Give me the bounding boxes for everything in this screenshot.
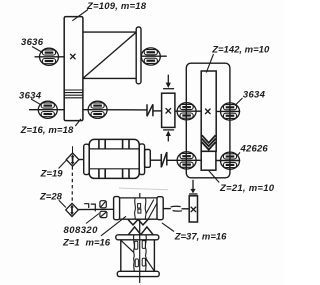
- bearing shaft I right: [141, 48, 160, 65]
- shaft II middle segment: [83, 109, 147, 111]
- bearing 3636: [40, 48, 59, 65]
- shaft IV right of wheel: [163, 208, 171, 210]
- bevel cone: [83, 32, 136, 78]
- gearbox bracket frame: [186, 63, 230, 178]
- x mark on gear Z=142: [206, 109, 211, 114]
- motor shaft right: [150, 159, 161, 161]
- shaft I right segment: [141, 55, 167, 57]
- x mark shaft I on gear Z=109: [71, 54, 76, 59]
- label Z=109, m=18: [72, 1, 146, 21]
- stub above diamond: [72, 146, 74, 153]
- bearing 42626 gearbox bottom-right: [221, 152, 240, 169]
- gap symbol: [171, 206, 182, 211]
- label Z=19: [40, 160, 67, 179]
- coupling diamond Z=19: [66, 153, 79, 166]
- scan crease (faint): [119, 188, 168, 190]
- shaft break motor side: [161, 152, 167, 167]
- gear block Z=109 / Z=16: [64, 17, 83, 121]
- wheel shaft stub above: [139, 193, 141, 198]
- label Z=1 m=16: [62, 216, 126, 248]
- x-gear near worm: [189, 196, 197, 222]
- seal 808320 lower: [100, 211, 107, 217]
- worm assembly: [116, 235, 159, 277]
- svg-text:808320: 808320: [64, 225, 99, 236]
- svg-text:m=16: m=16: [86, 238, 111, 249]
- dashed chain link: [71, 166, 73, 203]
- clutch marks on shaft IV: [84, 204, 95, 212]
- shaft break on shaft II: [147, 104, 153, 116]
- seal 808320 upper: [100, 201, 106, 208]
- svg-text:Z=1: Z=1: [62, 238, 80, 249]
- shaft to x-gear: [182, 208, 190, 210]
- shaft II left segment: [29, 109, 64, 111]
- bearing 3634 gearbox top-right: [221, 103, 240, 120]
- gear Z=21 body: [201, 151, 216, 170]
- shaft I left segment: [35, 56, 65, 58]
- label Z=16, m=18: [20, 119, 81, 136]
- svg-text:Z=109, m=18: Z=109, m=18: [86, 1, 147, 12]
- shaft II right of break: [153, 110, 162, 112]
- shift arrow above pinion: [163, 75, 174, 89]
- label 808320: [64, 214, 100, 237]
- label 42626: [237, 144, 268, 156]
- coupling diamond Z=28: [66, 203, 79, 216]
- shaft diamond to motor: [79, 159, 84, 161]
- shift arrow below pinion: [163, 130, 174, 142]
- label Z=142, m=10: [206, 44, 270, 72]
- label Z=21, m=10: [209, 171, 275, 194]
- mesh chevrons wheel bottom: [128, 219, 148, 225]
- svg-text:3634: 3634: [19, 90, 42, 101]
- shaft IV to worm wheel: [78, 208, 113, 210]
- vertical worm-wheel shaft: [139, 220, 141, 284]
- svg-text:Z=19: Z=19: [40, 169, 64, 180]
- bearing shaft II: [88, 101, 107, 118]
- svg-text:Z=16, m=18: Z=16, m=18: [20, 125, 74, 136]
- label Z=28: [39, 191, 66, 207]
- label 3634 left: [19, 90, 42, 105]
- bearing gearbox top-left: [177, 103, 196, 120]
- svg-text:42626: 42626: [240, 144, 269, 155]
- svg-text:Z=37, m=16: Z=37, m=16: [174, 232, 227, 243]
- herringbone chevrons in Z=142: [202, 135, 216, 149]
- down arrow from gearbox: [189, 180, 198, 194]
- bevel plate: [136, 27, 141, 84]
- bearing gearbox bottom-left: [177, 152, 196, 169]
- bearing 3634 left: [38, 101, 57, 118]
- label 3634 right: [235, 89, 266, 105]
- worm wheel assembly: [114, 197, 164, 220]
- mesh chevrons worm top: [128, 227, 153, 235]
- svg-text:Z=21, m=10: Z=21, m=10: [219, 183, 275, 194]
- gear Z=142 body: [201, 71, 216, 151]
- svg-text:3634: 3634: [243, 89, 266, 100]
- sliding pinion on shaft II: [162, 93, 175, 127]
- svg-text:Z=142, m=10: Z=142, m=10: [211, 44, 270, 55]
- label 3636: [21, 37, 44, 52]
- label Z=37, m=16: [162, 223, 227, 243]
- shaft II into gearbox: [175, 110, 201, 112]
- motor: [84, 139, 151, 178]
- shaft III into gearbox: [167, 159, 201, 161]
